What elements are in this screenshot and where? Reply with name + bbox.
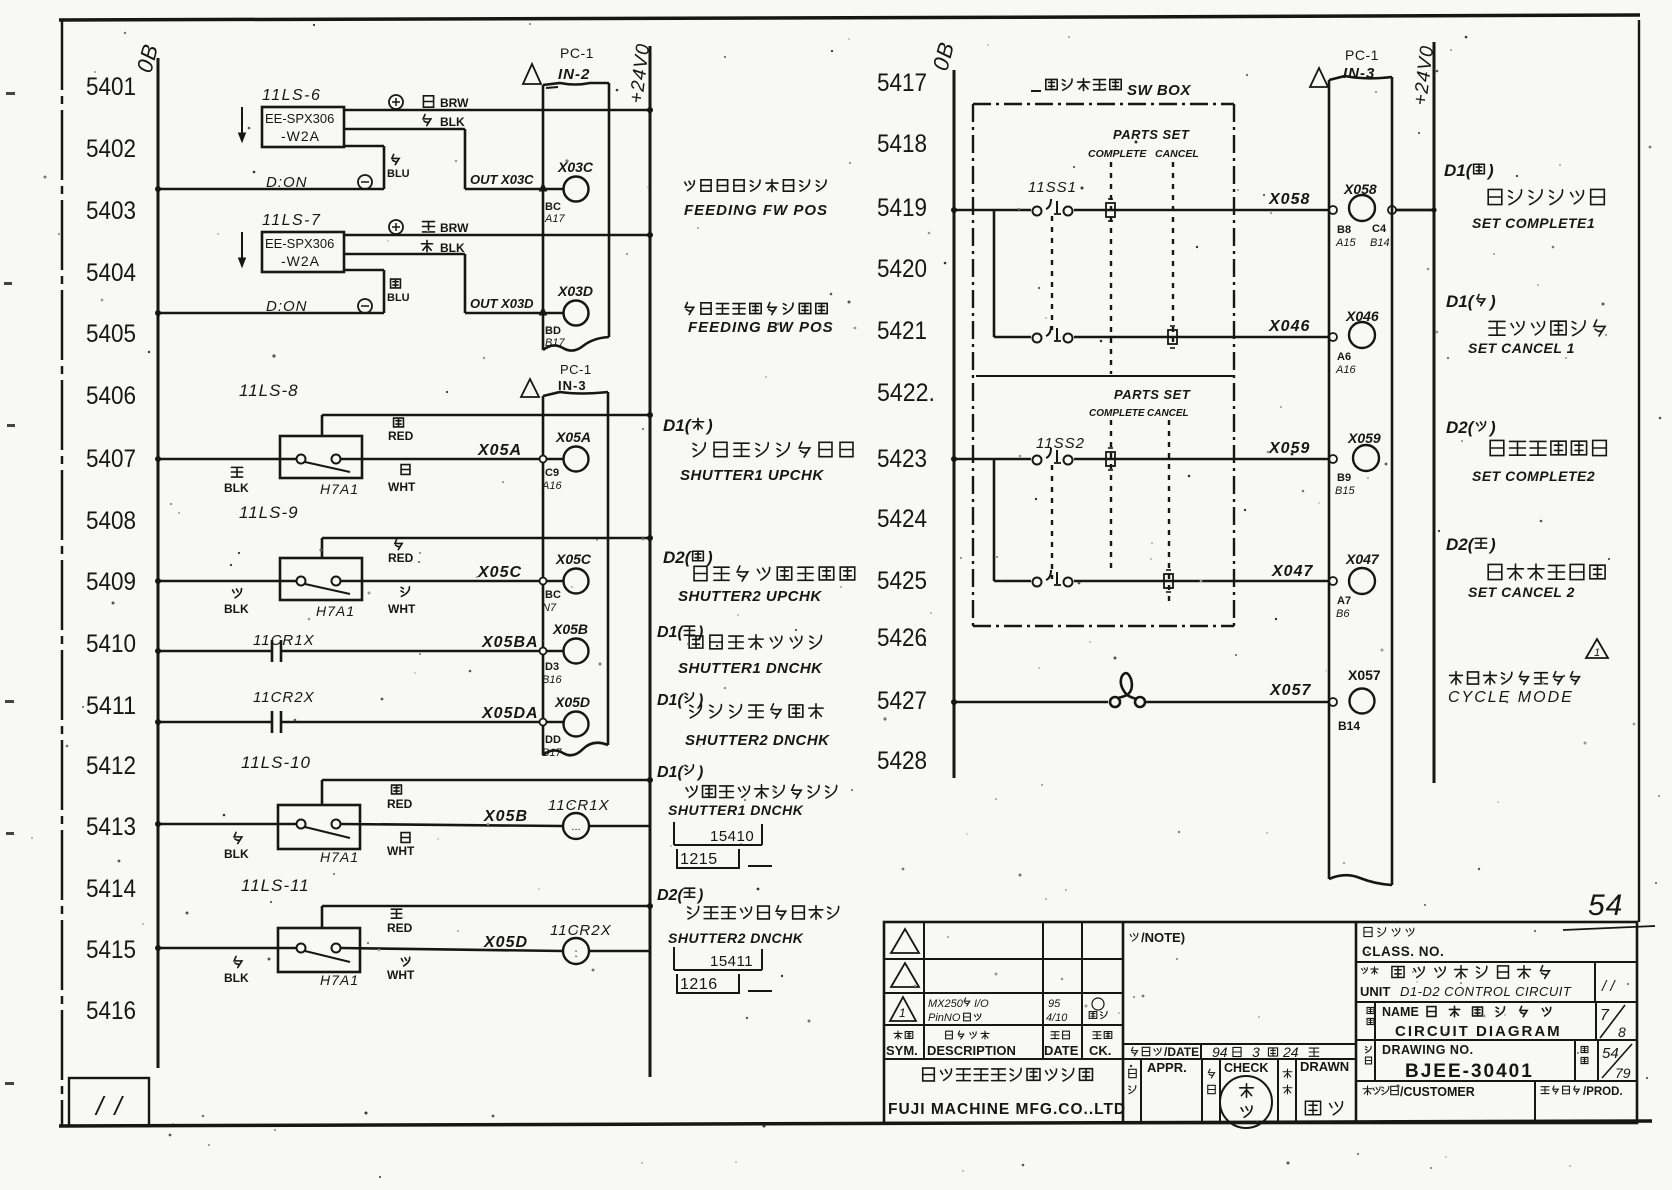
svg-text:D3: D3 [545,661,559,673]
svg-text:): ) [696,887,703,904]
svg-text:B14: B14 [1338,719,1360,733]
cartridge SW BOX outline [972,104,974,626]
cam box complete 5423 [1106,452,1115,466]
sensor 11LS-6 sensing arrow [241,107,243,138]
svg-text:UNIT: UNIT [1360,984,1390,999]
svg-text:DATE: DATE [1044,1043,1079,1058]
svg-text:): ) [705,416,713,435]
svg-text:A7: A7 [1337,595,1351,607]
comment feeding fw pos [685,181,695,191]
svg-text:/DATE: /DATE [1164,1045,1199,1059]
svg-text:SET CANCEL 1: SET CANCEL 1 [1468,340,1575,356]
svg-text:H7A1: H7A1 [320,849,359,865]
selector contact 11SS2 [1033,456,1042,465]
wire 11LS-6 BRW to +24V rail [344,109,650,112]
wire 11SS2 to X059 [1074,458,1329,461]
connector pin X05B [564,639,589,664]
svg-text:): ) [705,548,713,567]
label WHT 11LS-10 [401,833,410,843]
check stamp yamamoto [1220,1076,1272,1128]
selector contact 11SS2b [1033,578,1042,587]
svg-text:NAME: NAME [1382,1005,1419,1019]
wire 0V to 11LS-10 [158,823,296,826]
wire 11LS-7 BLU to 0V [344,269,384,272]
svg-text:WHT: WHT [388,602,416,616]
wire 11LS-11 to relay [341,948,563,951]
svg-text:DRAWING NO.: DRAWING NO. [1382,1043,1474,1057]
svg-text:EE-SPX306: EE-SPX306 [265,111,334,126]
revision header SYM [894,1031,902,1039]
svg-text:DD: DD [545,734,561,746]
svg-text:D1(: D1( [663,416,693,435]
wire 5414 branch to +24V [322,905,650,908]
svg-text:5405: 5405 [86,320,136,348]
svg-text:BLK: BLK [440,241,465,255]
svg-text:5423: 5423 [877,445,927,473]
svg-text:DRAWN: DRAWN [1300,1059,1349,1074]
svg-text:A16: A16 [541,480,562,492]
svg-text:PinNO: PinNO [928,1012,961,1024]
right ladder rung numbers 5417-5428 [877,69,935,775]
svg-text:X05D: X05D [554,694,590,710]
svg-text:X03C: X03C [557,159,594,175]
sheet number box bottom-left [69,1078,149,1126]
dashed line complete 1 [1110,162,1112,374]
sensor 11LS-7 sensing arrow [241,232,243,263]
svg-text:1: 1 [899,1006,906,1020]
svg-text:APPR.: APPR. [1147,1060,1187,1075]
wire 11LS-6 BLK output [344,128,465,131]
svg-text:5407: 5407 [86,445,136,473]
svg-text:A17: A17 [544,213,565,225]
svg-text:0B: 0B [928,39,960,73]
wire relay 11CR2X to +24V [589,950,650,953]
svg-text:SW BOX: SW BOX [1127,82,1191,99]
svg-text:BLK: BLK [224,847,249,861]
wire selector to X057 [1145,701,1329,704]
svg-text:X046: X046 [1268,318,1310,335]
svg-text:): ) [696,764,703,781]
page bottom border [59,1121,1652,1126]
sensor 11LS-6 body EE-SPX306-W2A [262,107,344,147]
svg-text:B15: B15 [1335,485,1355,497]
svg-text:BLK: BLK [224,602,249,616]
svg-text:IN-3: IN-3 [1343,65,1375,82]
wire X058 to +24V [1396,209,1434,212]
label WHT 11LS-9 [401,587,409,597]
warning triangle IN-3 [521,379,539,397]
wire 0V to 11LS-9 [158,580,296,583]
svg-text:-W2A: -W2A [281,253,320,269]
svg-text:X057: X057 [1348,667,1381,683]
wire 11LS-9 to X05C [341,580,563,583]
label RED 11LS-8 [394,418,404,427]
svg-text:X05D: X05D [483,934,528,951]
revision triangle row2 [891,963,919,987]
svg-text:5404: 5404 [86,259,136,287]
svg-text:BRW: BRW [440,221,469,235]
sign col check [1208,1069,1214,1078]
svg-text:B14: B14 [1370,237,1390,249]
svg-text:COMPLETE: COMPLETE [1089,408,1145,419]
relay coil 11CR1X [563,813,589,839]
svg-text:H7A1: H7A1 [320,972,359,988]
svg-text:5428: 5428 [877,747,927,775]
svg-text:11CR2X: 11CR2X [550,922,612,939]
comment cycle mode [1450,672,1463,685]
switch 11LS-8 body [280,436,362,478]
svg-text:5408: 5408 [86,507,136,535]
svg-text:D1(: D1( [657,764,684,781]
svg-text:SET CANCEL 2: SET CANCEL 2 [1468,584,1575,600]
svg-text:SET COMPLETE1: SET COMPLETE1 [1472,215,1595,231]
svg-text:D1(: D1( [657,624,684,641]
connector pin X047 [1329,577,1337,585]
svg-text:SHUTTER2 UPCHK: SHUTTER2 UPCHK [678,588,822,605]
svg-text:11CR2X: 11CR2X [253,689,315,706]
revision header DESCRIPTION [946,1031,953,1039]
relay coil 11CR2X [563,938,589,964]
svg-text:X046: X046 [1345,308,1379,324]
SW BOX divider [976,375,1234,377]
wire 11SS1 to X058 [1074,209,1329,212]
svg-text:): ) [696,692,703,709]
class no cell [1364,927,1372,936]
revision triangle 1 [890,997,916,1021]
svg-text:): ) [1488,418,1496,437]
right ladder 0V rail [953,70,956,778]
svg-text:X059: X059 [1268,440,1310,457]
svg-text:CANCEL: CANCEL [1155,148,1199,160]
cam box complete 5419 [1106,203,1115,217]
svg-text:24: 24 [1282,1044,1299,1060]
svg-text:5417: 5417 [877,69,927,97]
label BLK 11LS-8 [231,467,242,477]
svg-text:X047: X047 [1271,563,1313,580]
label BLK 11LS-9 [233,589,242,598]
connector PC-1 IN-3 outline [542,396,545,755]
svg-text:15410: 15410 [710,828,754,845]
svg-text:RED: RED [387,921,413,935]
right ladder +24V rail [1433,42,1436,783]
connector PC-1 IN-3 right outline [1328,80,1331,879]
svg-text:11LS-9: 11LS-9 [239,503,299,522]
svg-text:BLU: BLU [387,292,410,304]
wire 5425 to X047 [1074,580,1329,583]
sign col appr [1129,1069,1136,1077]
terminal minus symbol 11LS-7 [358,299,372,313]
svg-text:BRW: BRW [440,96,469,110]
svg-text:5420: 5420 [877,255,927,283]
contact 11CR1X [271,640,274,662]
warning triangle IN-2 [523,64,541,84]
svg-text:5409: 5409 [86,568,136,596]
svg-text:15411: 15411 [710,953,753,970]
label BLK black wire 1 [423,114,431,125]
svg-text:11LS-7: 11LS-7 [262,212,321,229]
revision triangle row1 [891,929,919,953]
label RED 11LS-9 [395,539,402,549]
name cell [1367,1007,1374,1013]
svg-text:BLK: BLK [224,481,249,495]
selector switch 5427 [1110,697,1120,707]
svg-text:94: 94 [1212,1044,1228,1060]
wire 5412 branch to +24V [322,779,650,782]
svg-text:CHECK: CHECK [1224,1061,1268,1075]
label WHT 11LS-11 [401,957,409,966]
selector contact 11SS1b [1033,334,1042,343]
svg-text:5424: 5424 [877,505,927,533]
title block grid [884,958,1123,960]
dashed line cancel 2 [1168,420,1170,602]
connector pin X059 [1329,455,1337,463]
svg-text:): ) [1486,161,1494,180]
svg-text:B8: B8 [1337,224,1351,236]
svg-text:SHUTTER2 DNCHK: SHUTTER2 DNCHK [685,732,830,749]
svg-text:D1(: D1( [1446,292,1476,311]
svg-text:PARTS SET: PARTS SET [1113,127,1190,142]
drawn sign esaka [1305,1101,1320,1115]
terminal plus symbol 11LS-7 [389,220,403,234]
svg-text:OUT X03D: OUT X03D [470,296,534,311]
svg-text:5421: 5421 [877,317,927,345]
svg-text:D:ON: D:ON [266,174,308,191]
left ladder 0V rail [157,58,160,1068]
unit name cell [1362,968,1368,974]
svg-text:5414: 5414 [86,875,136,903]
svg-text:5402: 5402 [86,135,136,163]
connector pin X05A [564,447,589,472]
wire 11LS-6 BLU to 0V [344,145,384,148]
svg-text:I/O: I/O [974,998,989,1010]
svg-text:FUJI MACHINE MFG.CO..LTD: FUJI MACHINE MFG.CO..LTD [888,1101,1126,1118]
svg-text:5427: 5427 [877,687,927,715]
branch 5423 to 5425 [993,459,996,581]
svg-text:/PROD.: /PROD. [1583,1086,1623,1098]
svg-text:A6: A6 [1337,351,1351,363]
sensor 11LS-7 body EE-SPX306-W2A [262,232,344,272]
label BRW brown wire 1 [423,96,433,107]
wire 0V to 11SS2 [954,458,1031,461]
company name fuji [923,1068,935,1081]
svg-text:B17: B17 [542,747,562,759]
svg-text:/ /: / / [94,1091,124,1121]
wire OUT X03C [465,188,563,191]
svg-text:FEEDING FW POS: FEEDING FW POS [684,202,828,219]
wire 5425 from branch [994,580,1031,583]
connector pin X03D [564,301,589,326]
svg-text:1215: 1215 [680,851,718,868]
svg-text:BJEE-30401: BJEE-30401 [1405,1061,1534,1082]
svg-text:BC: BC [545,201,561,213]
svg-text:B6: B6 [1336,608,1350,620]
svg-text:54: 54 [1602,1045,1619,1062]
label BRW brown wire 2 [423,222,435,232]
svg-text:5403: 5403 [86,197,136,225]
terminal plus symbol 11LS-6 [389,95,403,109]
svg-text:X03D: X03D [557,283,593,299]
svg-text:A15: A15 [1335,237,1356,249]
contact 11CR2X [271,711,274,733]
svg-text:11LS-11: 11LS-11 [241,876,310,895]
dashed link 11SS2 [1051,465,1053,579]
svg-text:): ) [1488,292,1496,311]
cam box cancel 5421 [1168,330,1177,344]
connector pin X058 [1329,206,1337,214]
svg-text:4/10: 4/10 [1046,1012,1068,1024]
svg-text:C9: C9 [545,467,559,479]
svg-text:D2(: D2( [1446,418,1476,437]
svg-text:5426: 5426 [877,624,927,652]
label BLU blue wire 2 [391,279,401,288]
svg-text:SYM.: SYM. [886,1043,918,1058]
svg-text:5406: 5406 [86,382,136,410]
svg-text:BLK: BLK [224,971,249,985]
svg-text:11SS1: 11SS1 [1028,179,1077,196]
svg-text:X05BA: X05BA [481,634,539,651]
svg-text:5416: 5416 [86,997,136,1025]
svg-text:D2(: D2( [657,887,684,904]
wire 11LS-7 BLK output [344,253,465,256]
connector pin X05C [564,569,589,594]
label RED 11LS-11 [391,909,401,918]
svg-text:X05C: X05C [477,564,522,581]
connector pin X046 [1329,333,1337,341]
svg-text:WHT: WHT [387,968,415,982]
svg-text:RED: RED [388,551,414,565]
svg-text:SHUTTER1 UPCHK: SHUTTER1 UPCHK [680,467,824,484]
svg-text:WHT: WHT [388,480,416,494]
wire contact to X05B [281,650,563,653]
wire 0V to 11LS-11 [158,947,296,950]
wire contact to X05D [281,721,563,724]
revision header DATE [1051,1032,1059,1039]
wire 0V to 11LS-8 [158,458,296,461]
svg-text:A16: A16 [1335,364,1356,376]
warning triangle IN-3 right [1310,68,1328,87]
svg-text:D1-D2 CONTROL CIRCUIT: D1-D2 CONTROL CIRCUIT [1400,984,1572,999]
svg-text:OUT X03C: OUT X03C [470,172,534,187]
svg-text:N7: N7 [542,602,557,614]
svg-text:RED: RED [388,429,414,443]
connector pin X05D [564,712,589,737]
wire 5408 branch to +24V [322,537,650,540]
branch 5419 to 5421 [993,210,996,337]
svg-text:/CUSTOMER: /CUSTOMER [1400,1085,1475,1099]
svg-text:BC: BC [545,589,561,601]
drawing no cell [1365,1046,1371,1053]
svg-text:D2(: D2( [1446,535,1476,554]
svg-text:X047: X047 [1345,551,1380,567]
wire 5406 branch to +24V [322,414,650,417]
wire 5421 from branch [994,336,1031,339]
svg-text:...: ... [571,821,580,833]
svg-text:DESCRIPTION: DESCRIPTION [927,1043,1016,1058]
connector pin X03C [564,177,589,202]
svg-text:5412: 5412 [86,752,136,780]
svg-text:IN-3: IN-3 [558,378,587,393]
wire rung 5402 0V to sensor [158,188,384,191]
left ladder rung numbers 5401-5416 [86,73,136,1025]
page top border [59,17,1100,20]
svg-text:5418: 5418 [877,130,927,158]
svg-text:11CR1X: 11CR1X [253,632,315,649]
wire 11LS-7 BRW to +24V rail [344,234,650,237]
svg-text:11SS2: 11SS2 [1036,435,1085,452]
cam box cancel 5425 [1164,574,1173,588]
svg-text:X058: X058 [1343,181,1377,197]
svg-text:X05A: X05A [555,429,591,445]
svg-text:CYCLE MODE: CYCLE MODE [1448,689,1574,706]
crossref table 5413 [673,822,675,845]
note label [1130,933,1138,941]
left ladder +24V rail [649,46,652,1077]
svg-text:D:ON: D:ON [266,298,308,315]
svg-text:/ /: / / [1601,978,1616,995]
svg-text:11LS-8: 11LS-8 [239,381,299,400]
revision header CK [1093,1032,1101,1039]
svg-text:5411: 5411 [86,692,136,720]
label BLK black wire 2 [421,240,432,251]
svg-text:SHUTTER1 DNCHK: SHUTTER1 DNCHK [678,660,823,677]
comment feeding bw pos [685,303,693,315]
svg-text:7: 7 [1600,1007,1610,1024]
warning triangle 1 note [1586,639,1608,658]
svg-text:RED: RED [387,797,413,811]
dashed line complete 2 [1110,420,1112,568]
svg-text:D2(: D2( [663,548,693,567]
svg-text:11LS-6: 11LS-6 [262,87,321,104]
svg-text:EE-SPX306: EE-SPX306 [265,236,334,251]
svg-text:95: 95 [1048,998,1061,1010]
dashed line cancel 1 [1172,162,1174,342]
svg-text:X05DA: X05DA [481,705,539,722]
connector pin X057 [1329,698,1337,706]
switch 11LS-9 body [280,558,362,600]
svg-text:B16: B16 [542,674,562,686]
customer cell [1363,1086,1372,1095]
wire 0V to selector X057 [954,701,1108,704]
svg-text:B9: B9 [1337,472,1351,484]
wire OUT X03D [465,312,563,315]
svg-text:FEEDING BW POS: FEEDING BW POS [688,319,834,336]
svg-text:5422.: 5422. [877,379,935,407]
svg-text:1: 1 [1594,647,1600,659]
svg-text::: : [574,946,577,960]
svg-text:5401: 5401 [86,73,136,101]
wire 11LS-10 to relay [341,824,563,826]
svg-text:C4: C4 [1372,223,1387,235]
svg-text:CLASS. NO.: CLASS. NO. [1362,944,1444,959]
svg-text:X05B: X05B [552,621,588,637]
sign col drawn [1283,1069,1292,1078]
svg-text:WHT: WHT [387,844,415,858]
label BLK 11LS-10 [234,832,242,843]
svg-text:/NOTE): /NOTE) [1141,930,1185,945]
svg-text:BD: BD [545,325,561,337]
svg-text:X05C: X05C [555,551,592,567]
svg-text:8: 8 [1618,1024,1626,1040]
svg-text:X05B: X05B [483,808,528,825]
svg-text:BLU: BLU [387,168,410,180]
svg-text:11CR1X: 11CR1X [548,797,610,814]
svg-text:PC-1: PC-1 [560,45,594,61]
date row [1131,1047,1137,1056]
wire 11LS-8 to X05A [341,458,563,461]
page left frame (chain line) [61,20,64,1126]
svg-text:IN-2: IN-2 [558,66,590,83]
svg-text:CANCEL: CANCEL [1147,408,1189,419]
